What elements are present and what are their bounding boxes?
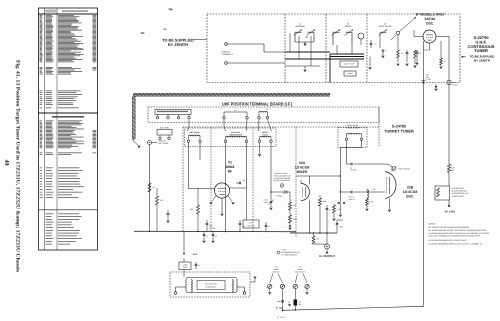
feedthrough capacitor on box edge (right): [447, 81, 458, 87]
transformer row dashed box: [185, 128, 277, 147]
capacitor C7 (V3 cathode): [416, 50, 430, 62]
parts table header row: [45, 10, 88, 13]
tube V2A (half 6CG8): [301, 180, 310, 201]
variable inductor L5 (oscillator): [379, 30, 388, 49]
svg-text:10K: 10K: [317, 238, 321, 241]
svg-text:6.8K: 6.8K: [370, 201, 374, 204]
trimmer TP2: [280, 284, 284, 310]
svg-text:10K: 10K: [323, 200, 327, 203]
svg-text:OSC ANT COIL: OSC ANT COIL: [205, 282, 218, 285]
svg-text:IN UHF POSITION: IN UHF POSITION: [452, 190, 468, 193]
ground (RF section): [295, 42, 314, 46]
ground (RF bus): [304, 66, 307, 72]
V3 plate/grid wiring: [414, 30, 449, 83]
svg-text:5 - 7 5 4 1: 5 - 7 5 4 1: [277, 316, 286, 319]
oscillator trimmer: [391, 31, 400, 48]
svg-text:82: 82: [243, 179, 245, 182]
ground (mixer section): [369, 57, 372, 70]
V1 wiring: [189, 142, 247, 231]
feedthrough capacitor on box edge (left): [422, 74, 432, 84]
terminal strip TS2: [223, 109, 249, 119]
feedthrough box IF output link: [243, 188, 259, 228]
svg-text:TRAP: TRAP: [183, 266, 188, 269]
capacitor C11: [239, 220, 246, 231]
svg-text:RF: RF: [228, 169, 233, 173]
svg-text:OSCILLATOR: OSCILLATOR: [379, 25, 392, 28]
svg-text:BLOCK CAPACITOR: BLOCK CAPACITOR: [274, 179, 291, 182]
coil assembly: [186, 278, 237, 293]
wire AGC label: [183, 231, 198, 256]
svg-text:I.F. SWEEP MODELS: I.F. SWEEP MODELS: [281, 254, 298, 257]
capacitor C18: [167, 210, 170, 223]
bus right segment: [290, 225, 337, 234]
svg-text:ALL RESISTORS ARE 1/2 WATT 10: ALL RESISTORS ARE 1/2 WATT 10% UNLESS OT…: [429, 229, 488, 232]
svg-text:B+ 140V: B+ 140V: [276, 307, 284, 310]
svg-text:S-X-X DENOTES ANNOTATED CIRC: S-X-X DENOTES ANNOTATED CIRCUIT POINT: [429, 239, 468, 242]
svg-text:TUNER: TUNER: [474, 48, 488, 53]
svg-text:TUNER SHAFT: TUNER SHAFT: [452, 195, 465, 198]
svg-text:B+ 140V: B+ 140V: [445, 211, 455, 214]
label V2B 1/2 6CG8 OSC: [403, 186, 418, 199]
resistor R7 15K: [289, 198, 297, 210]
svg-text:UHF POSITION TERMINAL BOARD: UHF POSITION TERMINAL BOARD (I.F.): [222, 102, 292, 107]
diagonal tuning link: [399, 17, 416, 32]
transformer T3 MIXER GRID: [258, 131, 272, 142]
svg-text:V2A: V2A: [299, 161, 306, 165]
parts table rows section 3 (cabinet parts): [40, 91, 83, 109]
coil box terminals: [174, 287, 246, 294]
svg-text:1000: 1000: [452, 81, 456, 84]
svg-text:OSC ADJ: OSC ADJ: [272, 270, 279, 273]
diode/grid arrow: [276, 191, 287, 198]
figure caption (rotated): [14, 60, 20, 272]
resistor R4 (V3): [440, 58, 447, 66]
capacitor C19 (below bus): [203, 231, 208, 243]
grounds (V3): [416, 63, 443, 69]
svg-text:NOTES: NOTES: [429, 223, 436, 226]
svg-text:47K: 47K: [160, 199, 164, 202]
svg-text:4.7K: 4.7K: [372, 188, 376, 191]
parts list table frame: [39, 8, 98, 250]
shield hatched line (top): [133, 93, 330, 96]
trimmer TP4: [305, 284, 309, 294]
capacitor C10 1500 FT: [206, 220, 216, 231]
label B+ 140V (bottom): [276, 307, 284, 310]
trimmer TP3: [293, 284, 297, 299]
fine tuning control: [384, 164, 410, 171]
resistor R9 (mixer plate): [319, 195, 327, 233]
svg-text:MIXER: MIXER: [297, 170, 308, 174]
svg-text:L21: L21: [299, 301, 302, 304]
svg-text:1: 1: [386, 50, 387, 53]
parts table rows section 2: [40, 67, 97, 74]
svg-text:FIL: FIL: [266, 108, 269, 111]
scan specks: [140, 8, 309, 37]
svg-text:1.5 NPO: 1.5 NPO: [350, 169, 357, 172]
terminal strip TS1: [155, 110, 191, 119]
label: TO PLACE OSC ADJUST (right pair): [295, 266, 307, 284]
svg-text:1/2 6CG8: 1/2 6CG8: [403, 190, 418, 194]
svg-text:(FINE TUNING): (FINE TUNING): [398, 168, 410, 171]
V2A plate wiring: [270, 175, 340, 233]
svg-text:Fig. 41. 13 Position Target Tu: Fig. 41. 13 Position Target Tuner Used i…: [14, 60, 20, 272]
wire from antenna terminals: [227, 44, 285, 63]
svg-text:1/2 6CG8: 1/2 6CG8: [295, 165, 310, 169]
parts table rows section 7: [46, 214, 82, 245]
label V1 6BN4 RF: [226, 161, 235, 174]
choke L21 RFC: [294, 299, 303, 310]
capacitor C4 1.5: [370, 40, 377, 48]
svg-text:4.7K: 4.7K: [451, 167, 455, 170]
svg-text:AGC: AGC: [193, 253, 198, 256]
B+ bottom bus: [282, 306, 424, 311]
resistor R15: [312, 233, 327, 244]
svg-text:I.F. OUTPUT: I.F. OUTPUT: [319, 254, 335, 258]
svg-text:47: 47: [198, 264, 200, 267]
svg-text:NPO FT: NPO FT: [349, 198, 355, 201]
trap box L9 4.5MC: [179, 258, 191, 277]
variable inductor L4: [345, 30, 354, 46]
svg-text:10: 10: [268, 225, 270, 228]
ground (C12): [270, 208, 273, 210]
capacitor C9 (V1 grid): [236, 179, 245, 184]
ground (choke): [288, 301, 291, 306]
wire left antenna drop: [149, 148, 151, 231]
capacitor C21: [265, 222, 270, 231]
resistor R2 10MEG: [397, 48, 403, 62]
svg-text:B+: B+: [234, 109, 236, 112]
resistor R3: [414, 50, 422, 64]
svg-text:ANTENNA: ANTENNA: [295, 25, 305, 28]
variable inductor L3: [332, 30, 341, 46]
transformer T2 RF PLATE: [224, 131, 247, 142]
page number 49 (rotated): [3, 160, 9, 166]
ground (V2B cathode): [388, 210, 391, 212]
svg-text:'B' MODELS ONLY: 'B' MODELS ONLY: [415, 12, 445, 16]
tube V3 6AF4A: [423, 30, 436, 43]
capacitor C14 1500: [336, 220, 343, 229]
svg-text:MIXER: MIXER: [345, 25, 352, 28]
ground (shield left): [134, 139, 141, 148]
B+ feed wire (right of pair): [448, 83, 450, 165]
svg-text:220K: 220K: [293, 218, 298, 221]
svg-text:TRANSFORMER: TRANSFORMER: [346, 126, 361, 129]
parts table rows section 1: [40, 15, 97, 62]
V2B cathode wiring: [389, 199, 391, 210]
capacitor C20 (below bus): [212, 231, 217, 243]
svg-text:22: 22: [215, 235, 217, 238]
UHF continuous tuner dashed enclosure: [207, 14, 460, 83]
svg-text:VOLTAGES MEASURED WITH VTVM AN: VOLTAGES MEASURED WITH VTVM AND 100,000 …: [429, 232, 491, 235]
svg-text:1K: 1K: [444, 60, 447, 63]
svg-text:15K: 15K: [293, 204, 297, 207]
label L3 MIXER coil: [345, 23, 352, 29]
svg-text:FT CAP: FT CAP: [209, 227, 216, 230]
svg-text:VOLTAGES MEASURED WITH AC LINE: VOLTAGES MEASURED WITH AC LINE AT 117V A…: [429, 242, 483, 245]
capacitors at osc left leg: [333, 200, 345, 214]
parts table rows section 6: [40, 168, 84, 198]
main AGC bus: [134, 231, 296, 233]
UHF position switch: [435, 186, 450, 204]
mixer section bus and feedthrough: [330, 45, 364, 83]
svg-text:1.5: 1.5: [374, 43, 377, 46]
grounds (V1 cathode): [210, 203, 235, 216]
label V2A 1/2 6CG8 MIXER: [295, 161, 310, 174]
svg-text:10K: 10K: [190, 208, 194, 211]
shield hatched line (left): [132, 96, 135, 139]
svg-text:47 MMF: 47 MMF: [276, 195, 282, 198]
svg-text:ALL CAPACITORS ARE IN MICRO-MI: ALL CAPACITORS ARE IN MICRO-MICROFARADS.: [429, 226, 471, 229]
svg-text:6AF4A: 6AF4A: [425, 17, 436, 21]
mixer bottom bus junctions: [309, 232, 321, 233]
svg-text:ANT TERM: ANT TERM: [160, 127, 170, 130]
svg-text:1W: 1W: [451, 169, 454, 172]
svg-text:10: 10: [401, 52, 403, 55]
svg-text:.001: .001: [242, 225, 245, 228]
label L1 ANT: [295, 23, 305, 29]
svg-text:V2B: V2B: [407, 186, 414, 190]
wire T3 secondary to mixer grid: [270, 142, 272, 192]
capacitor C5 1 NPO: [382, 50, 387, 56]
resistor R5 (ant isolation): [148, 183, 155, 192]
svg-text:TO BE SUPPLIED: TO BE SUPPLIED: [162, 38, 194, 42]
osc grid line: [340, 188, 385, 201]
ground (osc grid): [366, 209, 369, 211]
svg-text:V1: V1: [228, 161, 232, 165]
trimmer TP1: [268, 284, 272, 294]
label 5-7541: [277, 316, 286, 319]
label B+ 140V: [445, 204, 455, 214]
UHF antenna terminals: [222, 43, 234, 65]
antenna terminal block: [157, 127, 172, 140]
svg-text:R: R: [451, 164, 453, 167]
transformer T1 ANT: [187, 131, 201, 142]
svg-text:OSC.: OSC.: [406, 194, 414, 198]
transformer T4 OSCILLATOR: [338, 124, 367, 148]
ground (coil box): [250, 277, 256, 282]
svg-text:(B MODELS): (B MODELS): [206, 285, 217, 288]
grounds (mixer plate RC): [333, 219, 336, 221]
svg-text:OUTPUT: OUTPUT: [247, 225, 255, 228]
grounds (osc section): [397, 64, 417, 68]
capacitor C15 1.5 NPO (osc top): [347, 163, 385, 172]
svg-text:AT SOCKET TERMINALS TO CHASSIS: AT SOCKET TERMINALS TO CHASSIS WITH NO S…: [429, 235, 482, 238]
label: UHF POSITION TERMINAL BOARD (I.F.): [222, 102, 292, 107]
parts table rows section 4: [40, 121, 97, 149]
terminal strip TS3 with coil: [258, 108, 269, 119]
capacitor C13: [326, 205, 331, 244]
oscillator coil assembly dashed box: [170, 272, 250, 297]
variable capacitor C12: [263, 198, 274, 207]
tube V2B (half 6CG8): [385, 166, 396, 199]
capacitor C23 (B+ filter): [277, 300, 284, 303]
svg-text:BY ZENITH: BY ZENITH: [474, 58, 490, 62]
resistor R6 (V1 grid leak): [190, 189, 200, 232]
svg-text:S-24785: S-24785: [392, 125, 406, 129]
ground (osc C): [382, 56, 385, 58]
svg-text:47K: 47K: [418, 52, 422, 55]
svg-text:C30: C30: [426, 74, 429, 77]
ground (osc left leg): [339, 215, 342, 217]
parts table rows section 5: [40, 153, 97, 155]
svg-text:BY ZENITH: BY ZENITH: [168, 43, 188, 47]
svg-text:1500 FT CAP: 1500 FT CAP: [344, 63, 355, 66]
svg-text:CLOSED ONLY: CLOSED ONLY: [452, 187, 465, 190]
label L5 OSCILLATOR: [379, 23, 392, 29]
tube socket (mixer section): [358, 33, 364, 45]
svg-text:NPO: NPO: [264, 201, 268, 204]
svg-text:OSC.: OSC.: [426, 21, 434, 25]
svg-text:1500: 1500: [277, 300, 281, 303]
coax connector to UHF tuner: [148, 140, 170, 149]
wires terminal strips to transformers: [188, 119, 272, 131]
tube V1: [214, 183, 229, 198]
B+ feed wire (left of pair): [423, 83, 425, 307]
resistor R12 (B+ dropping): [447, 164, 455, 186]
svg-text:UHF ANT: UHF ANT: [222, 51, 231, 54]
svg-text:6BN4: 6BN4: [226, 165, 235, 169]
svg-text:1500: 1500: [339, 226, 343, 229]
resistor R10: [333, 205, 341, 218]
variable inductor L2 (RF section): [307, 30, 316, 43]
ground arrow (between feed wires): [435, 84, 438, 91]
svg-text:ACTIVATED BY UHF: ACTIVATED BY UHF: [452, 192, 470, 195]
svg-text:OSC ADJUST: OSC ADJUST: [295, 270, 306, 273]
resistor R8 220K: [289, 210, 298, 230]
svg-text:UHF TUNER: UHF TUNER: [158, 142, 169, 145]
parts table lower divider: [39, 209, 98, 211]
svg-text:SHIELD: SHIELD: [347, 72, 354, 75]
label: TO TUNER OSC ADJUST (left pair): [270, 266, 283, 284]
IF output connector: [319, 244, 335, 258]
svg-text:TURRET TUNER: TURRET TUNER: [384, 130, 414, 134]
resistor R11 (osc grid leak): [366, 199, 374, 209]
svg-text:47: 47: [206, 235, 208, 238]
osc transformer drop wires: [340, 140, 361, 200]
ground (T3): [258, 142, 261, 156]
svg-text:ANT TRANS: ANT TRANS: [190, 131, 201, 134]
coil L6 (osc grid): [367, 189, 368, 198]
note: observation of IF sweep: [277, 249, 300, 257]
svg-text:4.5MC: 4.5MC: [183, 263, 189, 266]
parts table mid divider: [39, 113, 98, 118]
svg-text:47: 47: [329, 209, 331, 212]
terminal board dashed outline: [148, 107, 379, 123]
label: S-24785 TURRET TUNER: [384, 125, 414, 134]
note: IF signal input for alignment: [274, 172, 291, 187]
svg-text:49: 49: [3, 160, 9, 166]
turret tuner dashed band: [183, 107, 379, 237]
resistor R13 (AGC): [156, 188, 164, 231]
label: S-23790 UHF CONTINUOUS TUNER: [461, 35, 495, 62]
label: TO BE SUPPLIED BY ZENITH (top left): [162, 38, 207, 47]
note: closed only in UHF position: [452, 187, 470, 198]
notes block: [429, 223, 491, 246]
svg-text:1K: 1K: [153, 186, 156, 189]
capacitor C6: [406, 50, 409, 62]
RF section bus wires: [285, 33, 364, 66]
variable inductor L1 (RF section): [294, 30, 303, 43]
label: 'B' MODELS ONLY 6AF4A OSC: [415, 12, 445, 25]
svg-text:1.5: 1.5: [333, 203, 335, 206]
capacitor C22 (trap): [195, 262, 200, 269]
svg-text:TERMINALS: TERMINALS: [222, 53, 234, 56]
